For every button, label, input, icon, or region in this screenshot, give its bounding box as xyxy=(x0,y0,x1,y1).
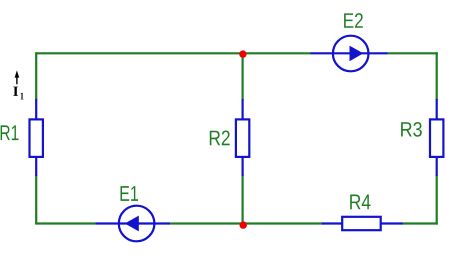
wire top horizontal right segment xyxy=(388,52,438,54)
node junction dot top xyxy=(239,50,246,57)
resistor R3 xyxy=(430,99,443,176)
label I1 xyxy=(13,87,18,96)
source E2 xyxy=(311,36,388,72)
node junction dot bottom xyxy=(240,221,247,228)
wire bottom horizontal segment 1 xyxy=(36,222,95,224)
wire bottom horizontal segment 2 xyxy=(170,222,323,224)
label E2 xyxy=(344,13,363,28)
wire middle vertical upper xyxy=(242,53,244,100)
source E1 xyxy=(95,206,170,242)
wire middle vertical lower xyxy=(242,175,244,224)
wire left vertical upper xyxy=(35,52,37,100)
current arrow I1 xyxy=(15,70,20,84)
wire left vertical lower xyxy=(35,175,37,225)
label R1 xyxy=(1,125,19,140)
wire right vertical upper xyxy=(436,52,438,100)
label R2 xyxy=(210,131,230,146)
wire right vertical lower xyxy=(436,175,438,225)
wire bottom horizontal segment 3 xyxy=(402,222,438,224)
label R3 xyxy=(401,122,422,137)
label R4 xyxy=(350,195,370,210)
resistor R4 xyxy=(322,217,403,230)
resistor R2 xyxy=(236,99,249,176)
wire top horizontal left segment xyxy=(36,52,311,54)
label E1 xyxy=(121,186,139,201)
resistor R1 xyxy=(30,99,43,176)
